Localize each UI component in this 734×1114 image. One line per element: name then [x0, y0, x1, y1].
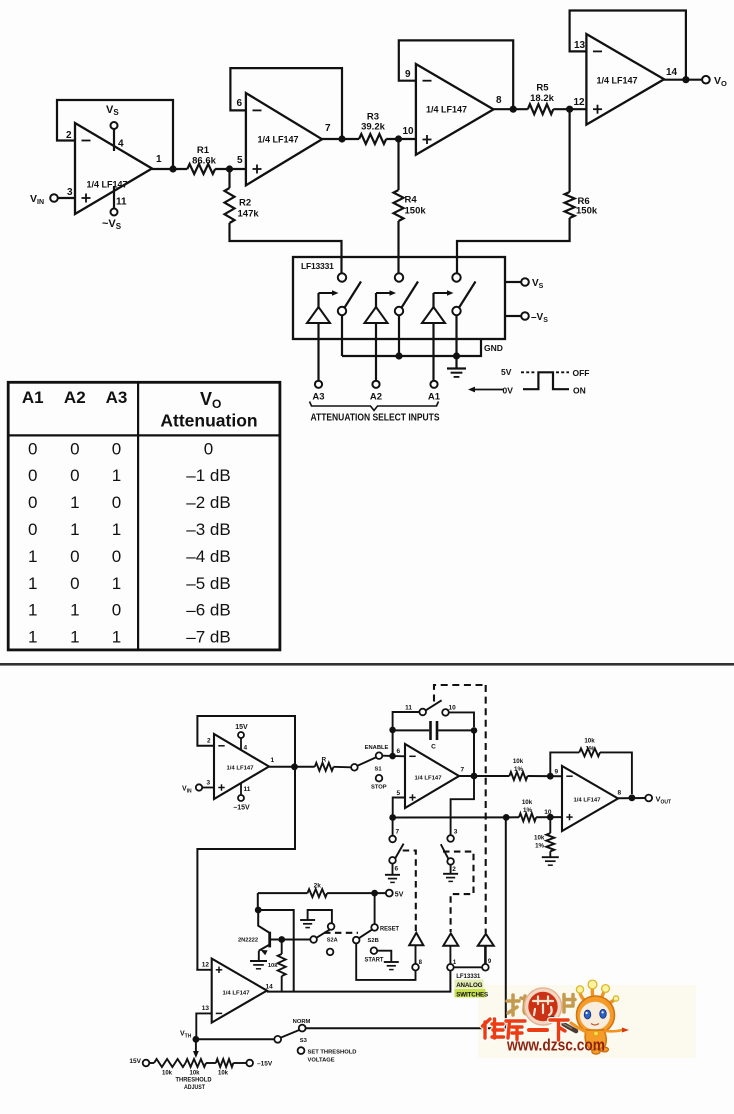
wire R6 to switch3 [457, 218, 570, 273]
svg-text:15V: 15V [129, 1058, 141, 1065]
node Q1 base [278, 936, 285, 943]
wire R2 to switch1 [230, 223, 342, 274]
resistor 10k base [268, 940, 286, 992]
wire feedback U1C [399, 40, 513, 109]
wire comparator output row [267, 971, 451, 992]
svg-text:1/4 LF147: 1/4 LF147 [227, 766, 254, 772]
svg-text:1: 1 [28, 574, 37, 593]
svg-text:0: 0 [70, 547, 79, 566]
op-amp A3 1/4 LF147 output [544, 766, 621, 831]
terminal switch pin3 [447, 829, 457, 842]
wire SW1 lower contact to bus [341, 315, 343, 356]
svg-text:11: 11 [244, 786, 251, 793]
wire R4 to switch2 [397, 221, 399, 273]
svg-text:1/4 LF147: 1/4 LF147 [223, 991, 250, 997]
switch SW1 contacts [338, 273, 361, 315]
node bus SW2 [395, 352, 402, 359]
node pin5 U1B [226, 165, 233, 172]
svg-text:1: 1 [156, 154, 162, 165]
svg-text:0: 0 [70, 439, 79, 458]
svg-text:10: 10 [449, 705, 457, 712]
svg-text:1/4 LF147: 1/4 LF147 [87, 180, 128, 191]
svg-text:4: 4 [244, 745, 248, 752]
analog switch driver T3 [478, 934, 494, 971]
svg-text:A2: A2 [370, 392, 382, 403]
svg-text:1/4 LF147: 1/4 LF147 [415, 776, 442, 782]
op-amp B4 1/4 LF147 comparator [202, 959, 273, 1023]
svg-text:S1: S1 [375, 767, 383, 773]
switch S2B RESET/START [353, 924, 399, 969]
resistor R6 150k [565, 109, 598, 218]
svg-text:10k: 10k [513, 758, 524, 765]
switch SW1 driver triangle [307, 290, 339, 323]
wire pin12 stub [196, 969, 211, 971]
watermark glyph pian [564, 995, 575, 1013]
resistor R4 150k [394, 139, 427, 221]
timing legend pulse [501, 367, 590, 396]
svg-text:0: 0 [28, 520, 37, 539]
switch SW2 driver triangle [365, 290, 397, 323]
resistor 10k 1% series pin9 [509, 758, 527, 780]
node U1B output [338, 135, 345, 142]
svg-text:A2: A2 [64, 388, 86, 407]
wire A3 output [618, 797, 645, 799]
wire U1A output [152, 168, 187, 170]
svg-text:12: 12 [574, 97, 586, 108]
svg-text:GND: GND [484, 343, 503, 353]
svg-text:Attenuation: Attenuation [160, 411, 257, 431]
svg-text:1/4 LF147: 1/4 LF147 [574, 798, 601, 804]
node A3 output [629, 794, 636, 801]
switch S1 ENABLE/STOP [351, 745, 388, 791]
wire SW3 lower contact to bus [455, 315, 457, 356]
potentiometer 10k threshold adjust [186, 1059, 207, 1077]
label THRESHOLD ADJUST [176, 1077, 212, 1092]
node 5V row reset drop [371, 890, 378, 897]
svg-text:–6 dB: –6 dB [186, 601, 230, 620]
svg-text:1: 1 [112, 574, 121, 593]
section divider line [0, 663, 734, 666]
svg-text:10k: 10k [268, 963, 278, 969]
svg-text:2: 2 [207, 738, 211, 745]
svg-text:0: 0 [112, 439, 121, 458]
wire R1 to U1B [215, 168, 246, 170]
svg-text:–7 dB: –7 dB [186, 628, 230, 647]
watermark magnifier with chip glyph [524, 988, 561, 1025]
wire VTH to pot wiper [195, 1039, 197, 1051]
terminal VS block [505, 278, 544, 290]
svg-text:13: 13 [202, 1005, 210, 1012]
terminal A3 [312, 381, 324, 403]
label LF13331 analog switches [455, 973, 489, 998]
svg-text:1/4 LF147: 1/4 LF147 [258, 135, 299, 146]
svg-text:7: 7 [396, 829, 400, 836]
watermark mascot body [585, 1030, 606, 1052]
svg-text:ANALOG: ANALOG [456, 982, 482, 989]
svg-text:0: 0 [204, 439, 213, 458]
node VTH [193, 1036, 200, 1043]
svg-text:8: 8 [496, 95, 502, 106]
terminal -15V pot [246, 1060, 272, 1068]
svg-text:S2A: S2A [327, 938, 338, 944]
node B1 output [291, 763, 298, 770]
svg-text:13: 13 [574, 40, 586, 51]
node A2 output [471, 773, 478, 780]
switch pins 11-10 across C [393, 700, 474, 730]
op-amp U1B 1/4 LF147 [237, 93, 332, 185]
terminal VIN bottom [182, 784, 214, 794]
wire A2 output to switch pin3 [451, 776, 474, 835]
dashed control line top bus [434, 685, 486, 702]
terminal -VS block [505, 312, 548, 324]
svg-text:ADJUST: ADJUST [184, 1084, 205, 1091]
node pin9 [547, 773, 554, 780]
svg-text:11: 11 [116, 197, 127, 208]
node pin10 [547, 814, 554, 821]
terminal VIN [30, 193, 75, 206]
svg-text:THRESHOLD: THRESHOLD [176, 1077, 212, 1084]
svg-text:1: 1 [271, 757, 275, 764]
wire pin13 to VTH [196, 1013, 211, 1039]
svg-text:14: 14 [666, 67, 678, 78]
svg-text:–1 dB: –1 dB [186, 466, 230, 485]
svg-text:1: 1 [112, 466, 121, 485]
node rail left [389, 814, 396, 821]
terminal VO [702, 75, 727, 88]
svg-text:A1: A1 [22, 388, 44, 407]
svg-text:0: 0 [112, 601, 121, 620]
node rail S2B drop [503, 814, 510, 821]
wire pin5 A2 to rail [393, 798, 405, 818]
watermark mascot left arm [571, 1023, 586, 1032]
svg-text:2: 2 [452, 866, 456, 873]
wire R5 to U1D [553, 108, 586, 110]
wire analog rail [393, 816, 519, 818]
svg-text:6: 6 [237, 98, 243, 109]
terminal 5V [386, 890, 404, 899]
transistor Q1 2N2222 [238, 910, 278, 969]
svg-text:C: C [431, 744, 436, 751]
switch pins 7-6 with ground [385, 844, 404, 883]
terminal 15V B1 [235, 724, 248, 751]
svg-text:–15V: –15V [257, 1061, 273, 1068]
svg-text:4: 4 [118, 139, 124, 150]
wire SW1 control lead [317, 323, 319, 381]
terminal A2 [370, 381, 382, 403]
resistor R3 39.2k [359, 112, 386, 145]
wire SW3 control lead [432, 323, 434, 381]
svg-text:LF13331: LF13331 [301, 261, 334, 271]
wire 5V to RESET [374, 893, 376, 924]
svg-text:–5 dB: –5 dB [186, 574, 230, 593]
svg-text:10k: 10k [522, 799, 533, 806]
watermark mascot face [580, 1002, 610, 1030]
svg-text:150k: 150k [405, 206, 427, 217]
wire B1 feedback loop and comparator sense [197, 716, 295, 970]
svg-text:A1: A1 [428, 392, 441, 403]
svg-text:3: 3 [454, 829, 458, 836]
svg-text:14: 14 [266, 984, 274, 991]
svg-text:10: 10 [403, 126, 415, 137]
svg-text:10k: 10k [162, 1071, 173, 1077]
svg-text:–4 dB: –4 dB [186, 547, 230, 566]
resistor 10k 1% feedback A3 [550, 738, 632, 795]
resistor R1 86.6k [187, 145, 216, 174]
switch S3 NORM/SET [274, 1019, 356, 1063]
svg-text:A3: A3 [106, 388, 128, 407]
switch SW3 driver triangle [422, 290, 454, 323]
svg-text:ENABLE: ENABLE [365, 745, 389, 751]
svg-text:15V: 15V [235, 724, 248, 731]
svg-text:SET THRESHOLD: SET THRESHOLD [308, 1049, 357, 1055]
op-amp U1C 1/4 LF147 [405, 64, 502, 155]
svg-text:1: 1 [112, 628, 121, 647]
watermark brand text weikuyixia [483, 1019, 569, 1040]
svg-text:ON: ON [573, 386, 586, 396]
svg-text:39.2k: 39.2k [361, 122, 385, 133]
switch S2A with ground [282, 910, 338, 955]
wire S2B pole to T1 control [356, 943, 415, 980]
svg-text:R2: R2 [239, 198, 251, 209]
brace attenuation select inputs [310, 402, 439, 411]
timing legend arrow [468, 387, 504, 393]
ground bus symbol [455, 356, 457, 368]
op-amp A2 1/4 LF147 integrator [397, 744, 465, 808]
svg-text:7: 7 [461, 767, 465, 774]
svg-text:9: 9 [555, 769, 559, 776]
svg-text:–2 dB: –2 dB [186, 493, 230, 512]
dashed control line to SW3 driver [485, 685, 487, 933]
wire feedback U1D [570, 11, 686, 80]
wire C to A2 output [473, 730, 475, 776]
svg-text:8: 8 [618, 790, 622, 797]
watermark mascot belt dot [594, 1031, 599, 1036]
watermark mascot right arm [605, 1030, 622, 1031]
wire collector riser [257, 893, 259, 910]
svg-text:7: 7 [325, 123, 331, 134]
wire R to S1 [334, 766, 352, 769]
node pin12 U1D [566, 106, 573, 113]
svg-text:–3 dB: –3 dB [186, 520, 230, 539]
wire ground bus [342, 339, 481, 356]
svg-text:1: 1 [70, 493, 79, 512]
svg-text:5: 5 [397, 790, 401, 797]
watermark mascot eyes [584, 1009, 606, 1019]
wire R3 to U1C [386, 138, 416, 140]
svg-text:18.2k: 18.2k [530, 93, 554, 104]
svg-text:R4: R4 [405, 195, 418, 206]
switch SW3 contacts [452, 273, 475, 315]
analog switch driver T2 [443, 933, 458, 970]
wire T2-T3 control link [454, 966, 482, 968]
wire feedback U1A output to pin2 [57, 100, 173, 169]
op-amp U1A 1/4 LF147 [66, 123, 162, 214]
svg-text:OFF: OFF [573, 368, 590, 378]
node collector [255, 907, 262, 914]
svg-text:0V: 0V [503, 386, 514, 396]
svg-text:START: START [365, 958, 384, 964]
wire U1C output [494, 108, 528, 110]
terminal 15V pot [129, 1058, 149, 1066]
svg-text:NORM: NORM [293, 1019, 311, 1025]
node U1C output [510, 106, 517, 113]
svg-text:3: 3 [67, 187, 73, 198]
svg-text:12: 12 [202, 962, 210, 969]
resistor 10k left [149, 1059, 185, 1077]
watermark mascot feet [592, 1049, 600, 1054]
wire feedback U1B [230, 68, 342, 139]
watermark mascot mouth [591, 1024, 599, 1026]
switch SW2 contacts [395, 273, 418, 315]
watermark magnifier handle [552, 1018, 576, 1031]
resistor R2 147k [225, 169, 260, 223]
svg-text:2: 2 [66, 130, 72, 141]
svg-text:0: 0 [70, 574, 79, 593]
svg-text:150k: 150k [576, 206, 598, 217]
svg-text:3: 3 [207, 780, 211, 787]
svg-text:1: 1 [70, 601, 79, 620]
wire 5V row [258, 892, 308, 894]
node bus SW3 [453, 352, 460, 359]
svg-text:10k: 10k [584, 738, 595, 745]
svg-text:11: 11 [405, 705, 412, 712]
svg-text:6: 6 [397, 748, 401, 755]
svg-text:5V: 5V [395, 892, 404, 899]
wire NORM row to rail drop [306, 817, 506, 1028]
wire VTH to S3 [196, 1038, 275, 1040]
analog switch driver T1 [409, 933, 423, 971]
svg-text:1/4 LF147: 1/4 LF147 [426, 105, 467, 116]
svg-text:0: 0 [28, 493, 37, 512]
svg-text:0: 0 [28, 439, 37, 458]
capacitor C integrator feedback [389, 721, 477, 756]
watermark mascot head [577, 996, 615, 1034]
resistor 2k [308, 883, 328, 898]
svg-text:1/4 LF147: 1/4 LF147 [597, 76, 638, 87]
svg-text:2N2222: 2N2222 [238, 938, 258, 944]
wire SW2 control lead [375, 323, 377, 381]
svg-text:STOP: STOP [371, 785, 387, 791]
svg-text:VOLTAGE: VOLTAGE [308, 1057, 335, 1063]
resistor R (integrator input) [315, 757, 334, 771]
dashed control line switch 3-2 to T2 [443, 852, 474, 932]
wire SW2 lower contact to bus [398, 315, 400, 356]
svg-text:R1: R1 [197, 145, 210, 156]
svg-text:RESET: RESET [380, 927, 399, 933]
svg-text:S2B: S2B [368, 938, 379, 944]
terminal VOUT [645, 795, 671, 806]
terminal -VS pin11 [102, 186, 122, 231]
watermark mascot crown spikes [580, 988, 615, 1004]
IC LF13331 analog switch block [293, 257, 505, 339]
watermark mascot crown balls [576, 980, 618, 1001]
resistor 10k right [206, 1059, 246, 1077]
svg-text:147k: 147k [238, 209, 260, 220]
svg-text:LF13331: LF13331 [456, 973, 481, 980]
terminal -15V B1 [233, 783, 250, 812]
svg-text:1: 1 [70, 628, 79, 647]
svg-text:1: 1 [28, 547, 37, 566]
svg-text:S3: S3 [300, 1038, 308, 1044]
resistor R5 18.2k [528, 83, 555, 115]
wire A2 output row [459, 775, 509, 777]
wire to pin9 node [528, 775, 563, 777]
svg-text:0: 0 [70, 466, 79, 485]
watermark glyph zhao [507, 995, 529, 1015]
op-amp U1D 1/4 LF147 [574, 34, 678, 125]
svg-text:–15V: –15V [233, 805, 250, 812]
node U1A output [169, 165, 176, 172]
svg-text:0: 0 [112, 547, 121, 566]
wire to pin10 node [536, 816, 562, 818]
dashed control line switch 7-6 to T1 [403, 851, 416, 932]
resistor 10k 1% series pin10 [519, 799, 536, 821]
watermark background patch [478, 985, 696, 1058]
terminal VS pin4 [106, 104, 119, 151]
wire B1 output [269, 766, 315, 768]
svg-text:A3: A3 [312, 392, 324, 403]
dashed gang link S2A-S2B [324, 932, 358, 934]
op-amp B1 1/4 LF147 input buffer [207, 734, 275, 799]
svg-text:10k: 10k [218, 1071, 229, 1077]
terminal A1 [428, 381, 441, 403]
svg-text:0: 0 [112, 493, 121, 512]
svg-text:6: 6 [395, 866, 399, 873]
svg-text:www.dzsc.com: www.dzsc.com [506, 1037, 605, 1055]
svg-text:1%: 1% [535, 843, 544, 850]
svg-text:9: 9 [405, 69, 411, 80]
resistor 10k 1% shunt to ground [534, 817, 559, 865]
svg-text:1: 1 [28, 628, 37, 647]
wire U1D output [664, 79, 702, 81]
svg-text:2k: 2k [314, 883, 322, 890]
node pin6 A2 [389, 753, 396, 760]
terminal switch pin7 [389, 818, 399, 843]
svg-text:10k: 10k [534, 835, 545, 842]
svg-text:5V: 5V [501, 367, 512, 377]
switch pins 3-2 with ground [441, 844, 458, 881]
svg-text:ATTENUATION SELECT INPUTS: ATTENUATION SELECT INPUTS [311, 412, 440, 424]
wire comparator output to collector node [258, 910, 294, 992]
svg-text:0: 0 [28, 466, 37, 485]
node pin10 U1C [395, 135, 402, 142]
svg-text:SWITCHES: SWITCHES [456, 991, 488, 998]
svg-text:86.6k: 86.6k [192, 156, 216, 167]
svg-text:1: 1 [70, 520, 79, 539]
svg-text:1: 1 [112, 520, 121, 539]
wire S1 to pin6 A2 [382, 755, 405, 758]
truth table attenuation [8, 382, 280, 650]
svg-text:5: 5 [237, 155, 243, 166]
wire U1B output [322, 138, 359, 140]
node U1D output [682, 76, 689, 83]
svg-text:1: 1 [28, 601, 37, 620]
svg-text:R5: R5 [536, 83, 549, 94]
